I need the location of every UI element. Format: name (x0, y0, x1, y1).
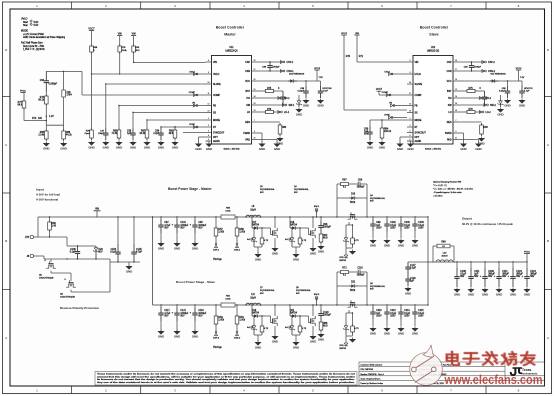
svg-text:100V: 100V (418, 227, 424, 229)
svg-text:VIN: VIN (415, 62, 419, 64)
ground below C110 (369, 328, 376, 332)
svg-text:SS: SS (415, 112, 419, 114)
svg-text:GND: GND (43, 146, 49, 150)
wire zener-resistor join to ground (254, 246, 262, 253)
text input spec (36, 187, 60, 201)
svg-text:44.2k: 44.2k (66, 135, 72, 137)
node FB flag (192, 103, 198, 107)
resistor R85 2.14k (38, 125, 48, 141)
capacitor C87 4.7uF 50V (158, 216, 171, 243)
ground below R82 (171, 142, 178, 146)
svg-text:GND: GND (130, 145, 136, 149)
svg-text:CSP-1: CSP-1 (287, 62, 295, 64)
svg-text:GND: GND (126, 269, 132, 273)
svg-text:SYNC: SYNC (189, 124, 195, 126)
transistor Q6 top switch (348, 300, 358, 313)
node SW-2 flag (484, 104, 497, 108)
svg-text:SW-1: SW-1 (289, 105, 295, 107)
svg-text:UVLO: UVLO (21, 19, 27, 21)
node HO-1 flag (278, 97, 290, 101)
svg-text:* Z = 1.5m + 2 · 250 kHz · 100: * Z = 1.5m + 2 · 250 kHz · 100 nH = 0.3 … (433, 189, 473, 191)
ground below C88 (2) (504, 100, 511, 104)
svg-text:100V: 100V (376, 227, 382, 229)
wire output trunk (427, 216, 428, 305)
svg-text:100V: 100V (418, 315, 424, 317)
svg-text:10µH: 10µH (250, 297, 256, 299)
svg-text:1: 1 (410, 118, 411, 120)
svg-text:100pF: 100pF (98, 133, 105, 135)
svg-text:7.5V: 7.5V (319, 77, 324, 79)
svg-text:BAT54: BAT54 (252, 224, 260, 227)
transistor Q7 low-side (270, 216, 277, 238)
svg-text:LM5122-Q1: LM5122-Q1 (427, 51, 440, 53)
svg-text:CSD17570Q5B: CSD17570Q5B (39, 277, 54, 279)
inductor L11 10uH (245, 294, 261, 306)
ground below C108 (453, 289, 460, 293)
svg-text:C103: C103 (418, 222, 424, 224)
svg-text:6: 6 (456, 131, 457, 133)
ground PGND (1) (258, 144, 265, 148)
svg-text:C66: C66 (358, 180, 363, 182)
svg-text:Duty Cycle 50 - 75%: Duty Cycle 50 - 75% (23, 45, 44, 48)
svg-text:9-16V for full load: 9-16V for full load (36, 193, 60, 197)
svg-text:2.14k: 2.14k (38, 135, 44, 137)
svg-text:B: B (5, 239, 7, 243)
ground mid caps (404, 288, 411, 292)
svg-text:63V: 63V (474, 276, 479, 278)
resistor R64 1.00k sense tap (235, 304, 246, 331)
svg-text:10: 10 (208, 82, 210, 84)
text output spec (462, 217, 513, 227)
svg-text:MODE: MODE (415, 120, 422, 122)
svg-text:Start: Start (23, 21, 28, 24)
svg-text:0.02: 0.02 (442, 246, 445, 248)
capacitor C102 0.1uF 100V (384, 216, 396, 238)
svg-text:VCC2: VCC2 (341, 33, 348, 35)
svg-text:VCC2: VCC2 (516, 68, 523, 70)
svg-text:4.7µF: 4.7µF (164, 313, 171, 315)
capacitor HFVCC 4.7uF (1) (317, 81, 332, 98)
svg-text:GND: GND (318, 337, 324, 341)
zener gate clamp near Q7 (247, 227, 270, 246)
zener diode D20 10V (93, 246, 103, 259)
svg-text:0.068µF: 0.068µF (49, 84, 58, 86)
wire CSN net (2) (459, 70, 485, 72)
svg-text:C113: C113 (390, 310, 396, 312)
svg-text:VIN: VIN (355, 33, 359, 35)
diode D14 PMEG6010 (288, 74, 305, 83)
capacitor C106 0.1uF (70, 245, 81, 259)
svg-text:3: 3 (208, 131, 209, 133)
svg-text:GND: GND (398, 331, 404, 335)
note optional damping resistor (433, 181, 473, 198)
svg-text:RES: RES (447, 122, 452, 124)
svg-text:BAT54: BAT54 (252, 312, 260, 315)
svg-text:GND: GND (144, 145, 150, 149)
svg-text:75mVpp: 75mVpp (213, 347, 222, 349)
svg-text:GND: GND (468, 292, 474, 296)
capacitor BST bootstrap (1) (282, 91, 284, 97)
svg-text:+1.2V: Forced PWM: +1.2V: Forced PWM (23, 33, 44, 36)
wire feedback mid join (46, 120, 64, 125)
svg-text:GND: GND (88, 145, 94, 149)
capacitor snubber C96 (318, 216, 331, 232)
wire snubber loop sides (336, 184, 367, 218)
svg-text:1000pF: 1000pF (357, 186, 365, 188)
diode BAT54 for Q4 (340, 246, 353, 262)
svg-text:GND: GND (195, 147, 201, 151)
zener diode near VCC (1) (296, 95, 302, 107)
svg-text:6-16V functional: 6-16V functional (36, 198, 58, 202)
resistor gate 4.75 near Q7 (260, 227, 269, 246)
svg-text:0.22µF: 0.22µF (297, 91, 304, 93)
wire PAD (1) (258, 140, 278, 143)
svg-text:2: 2 (208, 125, 209, 127)
resistor R69 input sense (48, 216, 57, 237)
wire VCC net (1) (258, 80, 318, 82)
svg-text:Drawn by: Matthew Jordan: Drawn by: Matthew Jordan (361, 382, 384, 385)
ground below HFVCC (1) (317, 100, 324, 104)
ground PAD (2) (475, 144, 482, 148)
resistor R77 64.9k (18, 99, 26, 110)
svg-text:10: 10 (409, 82, 411, 84)
svg-text:LO-2: LO-2 (486, 112, 492, 114)
svg-text:14: 14 (455, 96, 457, 98)
wire R77 to feedback node (24, 110, 46, 121)
svg-text:0.001: 0.001 (225, 299, 231, 301)
svg-text:GND: GND (206, 147, 212, 151)
svg-text:LO-1: LO-1 (284, 112, 290, 114)
svg-text:U11: U11 (229, 47, 234, 49)
resistor gate 4.75 for Q6 (351, 312, 360, 334)
wire VCC net (2) (459, 80, 519, 82)
svg-text:100V: 100V (404, 315, 410, 317)
capacitor C101 1200uF 50V (172, 216, 189, 243)
svg-text:D19: D19 (252, 310, 257, 312)
ground below Q8 (309, 336, 316, 340)
node LO-1 flag (278, 111, 290, 115)
svg-text:GND: GND (303, 103, 309, 107)
svg-text:100V: 100V (390, 315, 396, 317)
node UVLO flag (189, 71, 198, 75)
ground below R84 (378, 142, 385, 146)
svg-text:A: A (547, 336, 549, 340)
svg-text:SQCS5N08-5AL: SQCS5N08-5AL (294, 188, 310, 191)
ground AGND (1) (205, 144, 212, 148)
svg-text:36.0V @ 10.0A continuous / 25.: 36.0V @ 10.0A continuous / 25.0A peak (462, 222, 513, 226)
ground below R85 (43, 143, 50, 147)
svg-text:R75: R75 (267, 88, 272, 90)
svg-text:Customer: ECM customer: Customer: ECM customer (361, 364, 383, 367)
watermark text elecfans chinese (447, 352, 459, 365)
svg-text:GND: GND (158, 145, 164, 149)
ground below gate network Q7 (254, 254, 261, 258)
svg-text:A4.7S: A4.7S (247, 326, 253, 329)
svg-text:* Z = L / (R · C): * Z = L / (R · C) (433, 185, 447, 187)
diode D16 (snubber) (349, 194, 358, 205)
svg-text:GND: GND (379, 145, 385, 149)
capacitor C98 1uF 50V (SS) (127, 112, 136, 140)
wire AGND to ground (1) (206, 141, 210, 142)
wire trunk to slave stage (152, 216, 153, 305)
resistor R84 100k (slave) (380, 119, 392, 140)
wire CSP net (2) (459, 61, 485, 63)
svg-text:GND: GND (259, 147, 265, 151)
svg-text:GND: GND (519, 103, 525, 107)
capacitor C127 0.1uF 63V (mid) (405, 262, 428, 274)
svg-text:GND: GND (192, 246, 198, 250)
svg-text:D17: D17 (252, 222, 257, 224)
node CSN-1 flag (234, 243, 241, 251)
svg-text:20: 20 (455, 103, 457, 105)
svg-text:50V: 50V (180, 228, 185, 230)
svg-text:C118: C118 (198, 310, 204, 312)
svg-text:C90: C90 (40, 80, 45, 82)
wire zener-resistor join to ground (292, 246, 300, 253)
svg-text:GND: GND (370, 243, 376, 247)
svg-text:UVLO: UVLO (384, 71, 390, 73)
resistor R74 99.1k (38, 92, 48, 125)
svg-text:MODE: MODE (21, 31, 28, 33)
svg-text:0.22µF: 0.22µF (499, 91, 506, 93)
svg-text:Boost Controller: Boost Controller (216, 26, 245, 30)
svg-text:C110: C110 (376, 310, 382, 312)
transistor Q6 CSD17570Q5M (60, 273, 110, 298)
capacitor C115 0.1uF 100V (412, 304, 424, 326)
svg-text:GND: GND (310, 339, 316, 343)
svg-text:R83: R83 (484, 127, 489, 129)
svg-text:0.001: 0.001 (225, 211, 231, 213)
svg-text:GND: GND (482, 292, 488, 296)
wire HO net (1) (258, 97, 281, 99)
wire source of Q7 to ground (274, 326, 276, 335)
power flag VIN (controller feed) (131, 33, 136, 44)
svg-text:50V: 50V (180, 316, 185, 318)
svg-text:CSN-1: CSN-1 (234, 250, 241, 252)
svg-text:4: 4 (410, 135, 411, 137)
title block text (361, 364, 453, 386)
svg-text:Switch = 250 kHz: Switch = 250 kHz (425, 148, 441, 151)
svg-text:1.40: 1.40 (52, 226, 57, 228)
node 1.2V (46, 116, 55, 119)
svg-text:2700pF: 2700pF (474, 67, 482, 69)
svg-text:GND: GND (255, 345, 261, 349)
svg-text:5819: 5819 (350, 202, 356, 204)
wire snubber loop sides (336, 272, 367, 306)
ground below RES resistor (1) (276, 138, 283, 142)
svg-text:2784: 2784 (67, 95, 73, 97)
svg-text:CSD17570Q5M: CSD17570Q5M (60, 296, 75, 298)
svg-text:A4.7S: A4.7S (247, 238, 253, 241)
wire HO net (2) (459, 97, 482, 99)
resistor R59 49.9 (VIN feed) (132, 44, 140, 63)
svg-text:15: 15 (455, 89, 457, 91)
ground PGND (2) (460, 144, 467, 148)
svg-text:C114: C114 (404, 310, 410, 312)
wire source of Q8 to ground (312, 326, 314, 335)
svg-text:1: 1 (208, 118, 209, 120)
svg-text:11: 11 (208, 93, 210, 95)
zener gate clamp near Q8 (285, 315, 308, 334)
svg-text:GND: GND (384, 331, 390, 335)
svg-text:GND: GND (116, 145, 122, 149)
svg-text:GND: GND (158, 334, 164, 338)
ground below R86 (60, 143, 67, 147)
svg-text:CSP-2: CSP-2 (213, 338, 220, 340)
capacitor C84 2700pF (464, 62, 482, 71)
svg-text:1000pF: 1000pF (323, 315, 331, 317)
svg-text:63V: 63V (460, 276, 465, 278)
svg-text:D21: D21 (290, 310, 295, 312)
wire CSP net (1) (258, 61, 284, 63)
svg-text:17: 17 (254, 69, 256, 71)
ground below C87 (157, 243, 164, 247)
svg-text:GND: GND (412, 331, 418, 335)
ground below Q7 (271, 248, 278, 252)
connector J8 (27, 254, 44, 258)
svg-text:63V: 63V (488, 276, 493, 278)
resistor snubber R88 (319, 320, 328, 332)
svg-text:R75: R75 (469, 88, 474, 90)
logo Texas Instruments (510, 367, 538, 376)
wire SLOPE net (106, 83, 206, 85)
svg-text:15: 15 (254, 89, 256, 91)
svg-text:GND: GND (496, 292, 502, 296)
capacitor C103 0.1uF 100V (412, 216, 424, 238)
svg-text:C102: C102 (390, 222, 396, 224)
svg-text:GND: GND (407, 147, 413, 151)
inductor L10 100nH (436, 253, 453, 262)
resistor R72 6.2 (snubber loop) (337, 268, 356, 277)
ground below C99 (369, 240, 376, 244)
capacitor C113 0.1uF 100V (384, 304, 396, 326)
capacitor C112 390uF 63V (494, 261, 510, 287)
svg-text:Master: Master (224, 33, 236, 37)
svg-text:HO: HO (247, 98, 251, 100)
node COMP flag (slave) (382, 92, 407, 96)
svg-text:PGND: PGND (445, 133, 452, 135)
svg-text:1.00k: 1.00k (218, 320, 225, 322)
resistor R87 20.0k (MODE) (139, 119, 148, 140)
capacitor C111 1uF 63V (468, 261, 480, 287)
svg-text:1µF: 1µF (127, 133, 132, 135)
ground below snubber (317, 334, 324, 338)
svg-text:7: 7 (254, 120, 255, 122)
svg-text:5,6: 5,6 (44, 260, 46, 262)
wire SW net (2) (459, 104, 485, 106)
svg-text:Boost Power Stage - Slave: Boost Power Stage - Slave (176, 280, 215, 284)
svg-text:R70: R70 (346, 56, 351, 58)
svg-text:VCC7: VCC7 (88, 28, 95, 30)
node SW-1 flag (282, 104, 295, 108)
svg-text:GND: GND (192, 334, 198, 338)
svg-text:21: 21 (455, 138, 457, 140)
svg-text:VIN: VIN (118, 33, 122, 35)
svg-text:GND: GND (405, 291, 411, 295)
svg-text:71.5k: 71.5k (111, 133, 118, 135)
diode D15 PMEG6010 (490, 74, 507, 83)
wire OPT to ground (2) (400, 137, 407, 142)
svg-text:GND: GND (384, 243, 390, 247)
text Q8 designator (296, 287, 312, 295)
svg-text:f_PbZ = f 0 . [2] 6kHz: f_PbZ = f 0 . [2] 6kHz (23, 49, 46, 51)
svg-text:Open: Open (85, 133, 91, 135)
resistor R67 6.2 (snubber loop) (337, 180, 356, 189)
transistor Q3 low-side (308, 216, 315, 238)
svg-text:FB: FB (415, 105, 418, 107)
wire RES net (1) (258, 121, 281, 123)
svg-text:4: 4 (208, 135, 209, 137)
ground below gate network Q7 (254, 342, 261, 346)
svg-text:1µF: 1µF (410, 281, 415, 283)
svg-text:SQCS5N08-5AL: SQCS5N08-5AL (370, 285, 386, 288)
svg-text:AGND: AGND (415, 140, 422, 143)
capacitor C91 feedback (box) (62, 71, 73, 125)
svg-text:10V: 10V (98, 251, 103, 253)
svg-text:4.7µF: 4.7µF (164, 225, 171, 227)
wire CSN net (1) (258, 70, 284, 72)
svg-text:Input: Input (36, 187, 44, 191)
svg-text:R67: R67 (342, 180, 347, 182)
svg-text:Any use of the data contained: Any use of the data contained herein is … (97, 381, 356, 384)
svg-text:B: B (547, 239, 549, 243)
svg-text:D14 PMEG6010: D14 PMEG6010 (289, 74, 305, 76)
svg-text:12: 12 (208, 104, 210, 106)
ground below C111 (467, 289, 474, 293)
svg-text:D15 PMEG6010: D15 PMEG6010 (491, 74, 507, 76)
wire source rail (44, 256, 110, 260)
svg-text:1.00k: 1.00k (239, 320, 246, 322)
ground below Q7 (271, 336, 278, 340)
power flag VIN (UVLO divider feed) (117, 33, 122, 44)
svg-text:C87: C87 (164, 222, 169, 224)
svg-text:Texas Instruments and/or its l: Texas Instruments and/or its licensors d… (97, 373, 356, 376)
svg-text:RES: RES (245, 122, 250, 124)
ground below C114 (397, 328, 404, 332)
capacitor snubber C120 (318, 304, 331, 320)
resistor R79 Open (UVLO) (85, 128, 94, 140)
svg-text:6: 6 (254, 131, 255, 133)
svg-text:50V: 50V (364, 134, 369, 136)
wire SYNCOUT stub (183, 132, 206, 134)
svg-text:GND: GND (174, 246, 180, 250)
svg-text:1000pF: 1000pF (323, 227, 331, 229)
svg-text:GND: GND (454, 292, 460, 296)
svg-text:A4.7S: A4.7S (285, 326, 291, 329)
power flag VCC2 (516, 68, 525, 81)
svg-text:50V: 50V (198, 316, 203, 318)
svg-text:GND: GND (497, 112, 503, 116)
wire source of Q7 to ground (274, 238, 276, 247)
svg-text:8: 8 (410, 60, 411, 62)
transistor Q5 CSD17570Q5B (39, 259, 71, 279)
svg-text:5.9V: 5.9V (34, 22, 39, 24)
capacitor C114 0.1uF 100V (398, 304, 410, 326)
power flag VIN (input) (94, 209, 101, 218)
svg-text:MODE: MODE (213, 120, 220, 122)
svg-text:Output: Output (462, 217, 472, 221)
svg-text:16: 16 (455, 79, 457, 81)
resistor BST series 0 ohm (2) (459, 88, 485, 93)
capacitor C124 390uF 63V (522, 261, 538, 287)
resistor R82 49.9 (169, 126, 177, 140)
svg-text:CSN-2: CSN-2 (234, 338, 241, 340)
transistor Q8 slave low-side (308, 304, 315, 326)
diode D18 BAT54 (289, 216, 299, 230)
capacitor C95 1000uF 50V (190, 216, 207, 243)
wire VIN to U12 (357, 61, 407, 63)
svg-text:CSP-1: CSP-1 (213, 250, 220, 252)
